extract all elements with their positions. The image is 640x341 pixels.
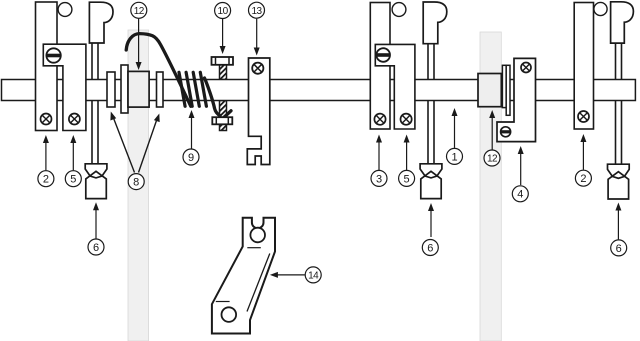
section band right (480, 32, 501, 341)
svg-text:9: 9 (188, 152, 194, 164)
rocker bracket 2 left (36, 2, 58, 131)
bolt 10 lower stub (220, 124, 227, 130)
torsion spring coil 9 (179, 72, 206, 106)
svg-text:8: 8 (133, 177, 139, 189)
crossed bolt circle 13 (252, 63, 263, 74)
bolt 10 lower flange (212, 117, 232, 124)
label 13 (249, 2, 265, 55)
bolt 10 upper shank (220, 65, 227, 80)
push rods middle (428, 44, 434, 164)
lever inner edge (247, 254, 270, 312)
label 6 middle (422, 203, 438, 256)
valve tappet 6 right (608, 164, 630, 199)
label 3 (371, 135, 387, 187)
svg-text:12: 12 (487, 154, 498, 165)
svg-text:6: 6 (93, 242, 99, 254)
svg-text:1: 1 (451, 151, 457, 163)
screw middle (376, 48, 390, 62)
crossed bolt circle 2 (41, 114, 52, 125)
label 1 (447, 108, 463, 164)
plate 5 middle (375, 44, 415, 129)
bracket 4 (497, 58, 536, 141)
rocker arm pad left (89, 2, 113, 43)
rocker bracket 3 middle (370, 3, 390, 130)
push rods left (92, 43, 98, 164)
svg-text:5: 5 (70, 174, 76, 186)
svg-text:2: 2 (43, 174, 49, 186)
crossed bolt circle 2r (578, 111, 589, 122)
crossed bolt circle 3 (374, 114, 385, 125)
label 10 (215, 3, 231, 55)
valve tappet 6 left (85, 164, 107, 199)
label 5 middle (399, 135, 415, 187)
washer 8b (tall) (121, 65, 128, 113)
lever top hole (250, 228, 265, 243)
collar 12 left (128, 71, 149, 107)
svg-text:14: 14 (308, 271, 319, 282)
svg-text:10: 10 (218, 6, 229, 17)
label 6 right (611, 203, 627, 256)
screw left (46, 48, 60, 62)
shaft 1 (2, 80, 636, 101)
crossed bolt circle 5 (69, 114, 80, 125)
label 2 left (38, 135, 54, 187)
washer 8c (157, 72, 164, 107)
svg-text:3: 3 (376, 173, 382, 185)
lever bottom hole (222, 307, 237, 322)
washer 8a (107, 72, 115, 107)
label 12 right (484, 110, 500, 166)
svg-text:4: 4 (517, 189, 523, 201)
torsion spring bolt-side tang (205, 78, 221, 116)
crossed bolt circle 5m (401, 114, 412, 125)
bracket 13 (247, 58, 269, 165)
lever tick top (247, 247, 260, 249)
torsion spring hook end (224, 111, 231, 118)
label 9 (183, 110, 199, 165)
section band left (128, 30, 149, 341)
washer strip 4 (502, 65, 506, 107)
svg-text:6: 6 (616, 243, 622, 255)
svg-text:13: 13 (251, 6, 262, 17)
pivot circle right (594, 2, 607, 15)
washer step 4 (506, 65, 510, 115)
rocker arm pad right (611, 2, 634, 43)
valve tappet 6 middle (420, 164, 442, 199)
pivot circle middle (392, 3, 406, 17)
bolt 10 lower shank (220, 101, 227, 118)
crossed bolt circle 4 (521, 63, 531, 73)
rocker arm pad middle (423, 2, 447, 44)
label 2 right (575, 134, 591, 186)
plate 5 left (43, 44, 86, 130)
push rods right (616, 43, 622, 164)
screw 4 (501, 127, 511, 137)
svg-text:5: 5 (404, 173, 410, 185)
label 8 (110, 112, 159, 190)
label 12 left (131, 2, 147, 70)
svg-text:2: 2 (580, 173, 586, 185)
pivot circle left (58, 3, 72, 17)
torsion spring long tang (126, 34, 191, 107)
label 4 (512, 146, 528, 202)
bolt 10 top flange (212, 57, 234, 65)
label 5 left (65, 135, 81, 187)
lever tick bottom (216, 301, 230, 303)
svg-text:6: 6 (427, 242, 433, 254)
link lever 14 (212, 218, 275, 334)
collar 12 right (478, 74, 501, 107)
svg-text:12: 12 (134, 6, 145, 17)
rocker bracket 2 right (574, 3, 593, 130)
label 6 left (88, 202, 104, 255)
label 14 (270, 267, 321, 283)
